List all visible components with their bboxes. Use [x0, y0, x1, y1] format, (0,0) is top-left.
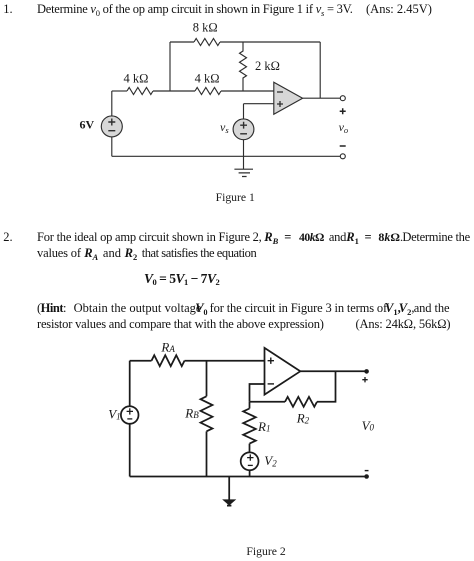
6V minus sign — [108, 130, 115, 132]
wire: top feedback wire left segment — [170, 41, 194, 43]
wire: mid wire to op-amp inverting input — [221, 90, 274, 92]
svg-text:V0: V0 — [362, 418, 375, 433]
problem 2 statement line 2 — [37, 247, 81, 260]
svg-text:R2: R2 — [296, 410, 310, 425]
problem 1 answer — [366, 3, 432, 16]
wire: V2 to bottom rail — [249, 470, 251, 476]
output plus label — [362, 377, 367, 382]
output minus label — [365, 470, 369, 472]
voltage source 6V circle — [101, 116, 122, 137]
svg-text:8 kΩ: 8 kΩ — [193, 21, 218, 35]
wire: R2 right segment up to output — [317, 371, 336, 402]
vs minus sign — [240, 133, 247, 135]
op-amp U2 triangle — [265, 348, 301, 395]
resistor 4k ohm (left) — [127, 88, 153, 95]
wire: inverting input to left node — [250, 384, 265, 402]
wire: RB branch upper — [206, 361, 208, 397]
ground arrowhead — [223, 500, 235, 505]
terminal: output plus dot — [364, 369, 369, 374]
terminal: output plus — [340, 96, 345, 101]
op-amp minus sign — [268, 383, 274, 385]
wire: vs bottom to ground — [243, 140, 245, 170]
svg-text:2 kΩ: 2 kΩ — [255, 59, 280, 73]
wire: vs plus-input connection — [244, 104, 274, 119]
problem 1 statement — [37, 3, 353, 17]
op-amp U1 triangle — [274, 82, 303, 114]
wire: R2 left segment — [250, 401, 286, 403]
ground tail — [227, 505, 231, 507]
wire: left vertical from mid node to top wire — [169, 42, 171, 91]
voltage source vs circle — [233, 119, 254, 140]
wire: mid wire left segment from 6V branch — [112, 90, 127, 92]
problem 2 equation — [144, 272, 219, 287]
resistor R2 — [285, 397, 317, 407]
resistor R1 — [243, 409, 256, 444]
wire: mid wire between resistors — [153, 90, 195, 92]
svg-text:4 kΩ: 4 kΩ — [124, 71, 149, 85]
wire: 6V branch vertical lower — [111, 137, 113, 156]
wire: V1 branch vertical lower — [129, 424, 131, 477]
problem 2 hint line 1 — [37, 302, 66, 315]
svg-text:RA: RA — [160, 340, 175, 355]
op-amp minus sign — [277, 91, 283, 93]
svg-text:Figure 1: Figure 1 — [216, 191, 255, 204]
V1 plus sign — [127, 408, 133, 414]
wire: bottom rail — [112, 155, 340, 157]
wire: top wire RA to op-amp plus input — [185, 360, 265, 362]
problem 2 hint line 2 — [37, 318, 324, 331]
wire: op-amp output — [300, 370, 366, 372]
resistor R=8k ohm (top feedback) — [194, 39, 220, 46]
svg-text:vo: vo — [339, 120, 349, 135]
voltage source V2 circle — [241, 452, 259, 470]
wire: R1 branch upper — [249, 402, 251, 409]
terminal: output minus dot — [364, 474, 369, 479]
wire: top feedback wire right segment — [220, 41, 320, 43]
svg-text:4 kΩ: 4 kΩ — [195, 71, 220, 85]
vs plus sign — [240, 122, 247, 129]
wire: V1 branch vertical upper — [129, 361, 131, 407]
output plus label — [340, 108, 346, 114]
V2 plus sign — [247, 454, 253, 460]
terminal: output minus — [340, 154, 345, 159]
problem 1 number — [3, 3, 12, 16]
svg-text:6V: 6V — [80, 118, 95, 132]
svg-text:V1: V1 — [108, 407, 120, 422]
V2 minus sign — [248, 464, 253, 466]
svg-text:R1: R1 — [257, 419, 270, 434]
problem 2 answer — [356, 318, 451, 331]
wire: R1 to V2 — [249, 444, 251, 453]
voltage source V1 circle — [121, 406, 139, 424]
resistor 4k ohm (right) — [195, 88, 221, 95]
wire: top wire from V1 to RA — [130, 360, 152, 362]
V1 minus sign — [127, 418, 132, 420]
problem 2 number — [3, 231, 12, 244]
op-amp plus sign — [268, 358, 274, 364]
svg-text:RB: RB — [184, 406, 199, 421]
problem 2 statement line 1 — [37, 231, 262, 244]
ground symbol — [234, 169, 253, 176]
svg-text:vs: vs — [220, 120, 229, 135]
svg-text:Figure 2: Figure 2 — [246, 545, 285, 558]
wire: 6V branch vertical upper — [111, 91, 113, 116]
svg-text:V2: V2 — [264, 453, 277, 468]
wire: RB branch lower — [206, 431, 208, 476]
ground stem — [228, 477, 230, 501]
wire: feedback vertical to output — [319, 42, 321, 98]
output minus label — [340, 145, 346, 147]
op-amp plus sign — [277, 101, 283, 107]
wire: op-amp output — [303, 97, 341, 99]
resistor 2k ohm (vertical) — [240, 42, 247, 91]
6V plus sign — [108, 119, 115, 126]
resistor RA — [152, 355, 185, 366]
wire: bottom rail — [130, 476, 367, 478]
resistor RB — [201, 396, 213, 431]
